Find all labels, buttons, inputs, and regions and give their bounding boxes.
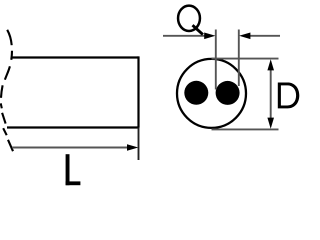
node circle: cable cross-section outline [177, 59, 246, 128]
wire: cylinder right edge [137, 56, 139, 127]
wire: dashed break line (left broken end of cable) [1, 30, 13, 151]
node Q label [178, 6, 203, 35]
wire: Q extension line right [238, 30, 240, 87]
wire: cylinder bottom line [7, 126, 139, 128]
wire: Q extension line left [215, 30, 217, 90]
wire: D extension line bottom [212, 128, 279, 130]
wire: Q dimension line right tail with left-pointing arrow [248, 35, 280, 37]
node L label [66, 154, 81, 185]
wire: dimension line L with right arrow [12, 147, 131, 149]
node D label [278, 83, 300, 109]
node conductor dot left [184, 81, 208, 105]
wire: extension line below right edge [138, 128, 140, 161]
wire: D extension line top [212, 58, 279, 60]
wire: Q dimension line left tail with right-pointing arrow [163, 35, 206, 37]
wire: cylinder top line [12, 56, 139, 58]
wire: D dimension line with up/down arrows [270, 66, 272, 122]
node conductor dot right [216, 81, 240, 105]
